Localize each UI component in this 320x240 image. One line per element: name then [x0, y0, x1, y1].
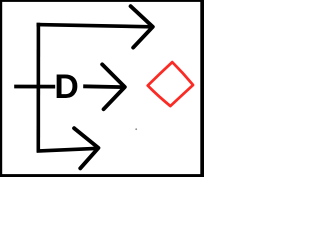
arrowhead: middle arrow [102, 64, 125, 109]
wire: bottom branch horizontal [37, 148, 96, 151]
wire: middle arrow shaft [83, 84, 123, 89]
arrowhead: top branch [131, 6, 153, 47]
arrowhead: bottom branch [74, 128, 98, 168]
svg-text:D: D [54, 68, 78, 106]
wire: vertical branch trunk [36, 23, 40, 153]
node D label [54, 68, 78, 106]
frame (decorative) [0, 0, 204, 177]
wire: middle input segment [14, 85, 55, 89]
wire: top branch horizontal [37, 25, 152, 27]
decision diamond (red) [148, 62, 193, 106]
stray dot [135, 128, 137, 130]
